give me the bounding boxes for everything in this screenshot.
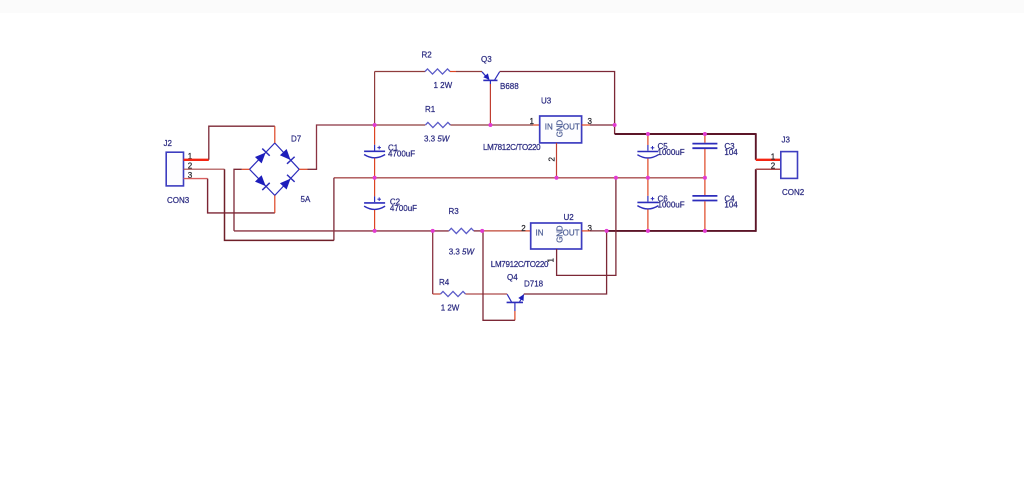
capacitor C5 [637,134,684,178]
svg-text:OUT: OUT [563,122,580,131]
svg-text:R4: R4 [439,278,450,287]
wire U3 OUT stub [582,124,590,126]
svg-text:3.3 5W: 3.3 5W [449,247,476,256]
wire U3 IN pin stub [533,124,540,126]
wire U2 OUT stub [582,230,590,232]
wire J2 pin3 stub [184,178,208,180]
svg-text:104: 104 [724,148,738,157]
wire D7 right stub [299,168,307,170]
svg-text:R1: R1 [425,105,436,114]
svg-text:1000uF: 1000uF [658,201,685,210]
svg-text:LM7812C/TO220: LM7812C/TO220 [483,143,541,152]
resistor R1 [424,105,451,143]
node C3-C4 junction [703,176,707,180]
wire J3 pin2 stub [756,168,781,170]
diode D7 bottom-left [255,175,270,190]
capacitor C2 [364,178,417,231]
wire J2 pin1 stub [184,159,209,161]
wire J3 pin1 stub [756,159,781,161]
svg-text:IN: IN [545,122,553,131]
svg-text:3.3 5W: 3.3 5W [424,134,451,143]
node U3 OUT junction [613,123,617,127]
wire R1 rail left [375,124,426,126]
svg-text:1: 1 [530,117,535,126]
resistor R3 [449,207,476,256]
svg-text:104: 104 [724,201,738,210]
diode D7 top-right [279,149,294,164]
wire V1 vertical [374,72,376,126]
resistor R2 [422,51,453,90]
wire D7 left stub [242,168,250,170]
op-amp U3 LM7812C/TO220 box [483,97,582,152]
svg-text:LM7912C/TO220: LM7912C/TO220 [491,260,549,269]
wire Q3 collector to right corner [500,72,615,135]
wire Q4 emitter return loop [483,231,515,320]
svg-text:D7: D7 [291,135,302,144]
wire J2 pin2 stub [184,168,225,170]
node C3 top junction [703,132,707,136]
wire +12V rail y=134 [615,133,756,135]
wire R4 to Q4 base [466,293,508,295]
svg-text:1 2W: 1 2W [441,303,460,312]
capacitor C6 [637,178,684,231]
capacitor C4 [692,178,738,231]
wire D7 top stub [274,126,276,143]
svg-text:2: 2 [521,224,526,233]
svg-text:CON3: CON3 [167,196,190,205]
wire Q3 base lead [489,84,491,125]
wire D7 bottom stub [274,195,276,213]
svg-text:5A: 5A [301,195,311,204]
resistor R4 [439,278,466,313]
wire U2 GND loop to rail B [557,178,616,276]
faint top band [0,0,1024,13]
svg-text:R2: R2 [422,51,433,60]
svg-text:U2: U2 [564,213,575,222]
svg-text:1 2W: 1 2W [434,81,453,90]
diode D7 top-left [255,149,270,164]
node Q4 emitter junction [480,229,484,233]
svg-text:OUT: OUT [563,229,580,238]
wire R4 branch riser [432,231,434,294]
svg-text:R3: R3 [449,207,460,216]
node U2 OUT junction [605,229,609,233]
node R1 rail / C1 junction [373,123,377,127]
wire D7 left to -rail riser [234,169,242,231]
svg-text:GND: GND [556,120,565,138]
node R4 branch junction [431,229,435,233]
capacitor C3 [692,134,738,178]
wire U2 OUT to -12 node [590,230,607,232]
node U3 GND junction [555,176,559,180]
svg-text:U3: U3 [541,97,552,106]
node C6 bottom junction [646,229,650,233]
node C2 bottom junction [373,229,377,233]
wire top net y=71.5 from V1 to R2 [375,71,426,73]
wire U3 OUT to +12 node [590,124,615,126]
svg-text:Q4: Q4 [507,273,518,282]
wire D7+ vertical riser [317,125,375,169]
node U2 GND rail junction [614,176,618,180]
wire Q4 emitter lead [514,311,516,320]
svg-text:GND: GND [555,225,564,243]
svg-text:1000uF: 1000uF [658,148,685,157]
svg-text:4700uF: 4700uF [388,150,415,159]
node C1-C2 gnd junction [373,176,377,180]
svg-text:D718: D718 [524,279,544,288]
wire D7 right to riser [308,168,318,170]
transistor Q4 [507,273,544,311]
svg-text:IN: IN [536,229,544,238]
wire -12V rail y=230.9 [607,230,756,232]
wire GND rail B y=177.8 [334,177,705,179]
wire +12V rail drop to J3 pin1 [755,133,757,160]
svg-text:1: 1 [771,152,776,161]
node C5 top junction [646,132,650,136]
svg-text:4700uF: 4700uF [390,204,417,213]
wire -input rail C left part y=230.9 [234,230,449,232]
node C4 bottom junction [703,229,707,233]
capacitor C1 [364,125,415,178]
wire J2 pin2 to gnd rail [225,169,334,240]
wire U3 GND lead [556,143,558,178]
op-amp U2 LM7912C/TO220 box [491,213,582,269]
wire R2 right lead [450,71,456,73]
transistor Q3 [481,55,519,91]
svg-text:J2: J2 [164,139,173,148]
svg-text:Q3: Q3 [481,55,492,64]
wire J2 pin1 riser to D7 top [209,126,275,160]
svg-text:2: 2 [548,157,557,162]
wire R4 left lead [433,293,441,295]
svg-text:2: 2 [771,162,776,171]
wire Q4 collector to -12 node [524,231,607,294]
wire J2 pin3 to D7 bottom [208,179,275,213]
wire U2 IN pin stub [524,230,531,232]
wire R2 to Q3 emitter [456,71,482,73]
node Q3 base junction [488,123,492,127]
node C5 bottom junction [646,176,650,180]
svg-text:CON2: CON2 [782,188,805,197]
connector J3 CON2 [781,136,805,197]
wire J3 pin2 riser [755,169,757,232]
diode bridge D7 frame [250,135,311,205]
wire R1 to U3 IN [450,124,533,126]
svg-text:B688: B688 [500,82,519,91]
wire R3 to U2 IN [474,230,482,232]
connector J2 CON3 [164,139,190,205]
svg-text:J3: J3 [782,136,791,145]
svg-text:1: 1 [547,258,556,263]
wire gnd rail left riser [333,178,335,241]
diode D7 bottom-right [279,175,294,190]
